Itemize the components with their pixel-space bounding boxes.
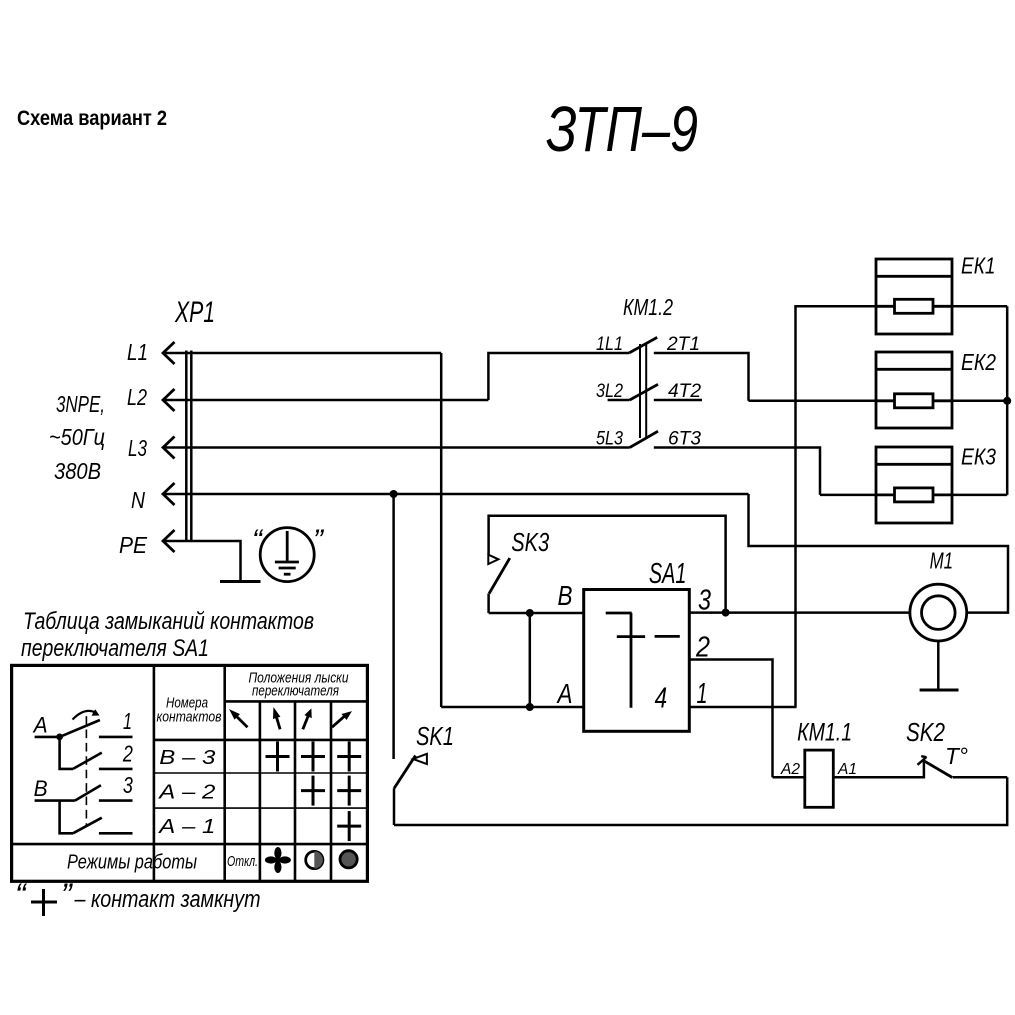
wire SK1 top (from N) [392, 494, 395, 759]
wire coil right to SK2 [833, 761, 924, 778]
switch SK1 fixed contact [413, 754, 427, 764]
SA1 pin 4 label [655, 683, 668, 715]
motor M1 [910, 584, 967, 641]
svg-text:контактов: контактов [157, 710, 222, 726]
SA1 pin B label [558, 580, 573, 611]
svg-text:PE: PE [119, 532, 148, 558]
svg-text:SK3: SK3 [511, 527, 549, 557]
switch SK2 contact tick [918, 756, 927, 765]
svg-text:А – 2: А – 2 [158, 782, 215, 804]
wire EK2 right lead [952, 400, 1007, 403]
svg-text:SA1: SA1 [649, 558, 687, 590]
wire SK3 bottom [487, 594, 490, 614]
switch diagram fixed 4 [99, 832, 133, 835]
switch diagram blade 2 [73, 753, 102, 769]
switch diagram blade 4 [73, 818, 102, 834]
switch SK2 thermal label [945, 743, 968, 769]
page title [17, 107, 167, 130]
wire N arrow [163, 483, 175, 505]
legend text [74, 886, 261, 913]
wire EK1 right lead [952, 305, 1007, 308]
svg-text:L2: L2 [127, 384, 147, 410]
mode off label [227, 853, 258, 870]
node A bridge [526, 703, 534, 711]
svg-text:~50Гц: ~50Гц [49, 424, 105, 450]
switch diagram B wire [35, 799, 75, 802]
svg-text:L1: L1 [127, 339, 148, 365]
net descriptor 380V [54, 458, 101, 484]
svg-text:ЕК2: ЕК2 [961, 349, 996, 375]
svg-text:1L1: 1L1 [596, 334, 623, 355]
switch diagram fixed 3 [99, 799, 133, 802]
wire SA1 pin A row [441, 706, 584, 709]
KM1.2 contact blade 3 [630, 431, 658, 447]
svg-text:XP1: XP1 [174, 296, 215, 329]
switch diagram dashed linkage [85, 716, 87, 826]
quote marks around earth symbol [252, 524, 325, 557]
KM1.2 pin label 1L1 [596, 334, 623, 355]
SA1 key symbol [606, 613, 680, 708]
node EK bus junction [1003, 397, 1011, 405]
svg-text:2: 2 [122, 740, 133, 766]
switch diagram link A to blade2 [60, 737, 73, 769]
plus A-2 col3 [301, 776, 325, 806]
KM1.2 pin label 2T1 [666, 334, 700, 355]
KM1.2 pin label 5L3 [596, 429, 623, 450]
SA1 pin 3 label [698, 585, 711, 617]
switch diagram blade 3 [75, 785, 101, 800]
switch diagram A pivot node [56, 734, 63, 741]
svg-text:– контакт замкнут: – контакт замкнут [74, 886, 261, 913]
svg-text:1: 1 [123, 708, 132, 734]
switch diagram fixed 2 [99, 768, 133, 771]
svg-text:ЕК1: ЕК1 [961, 253, 996, 279]
wire B-A bridge [529, 613, 532, 707]
contactor coil KM1.1 label [797, 718, 852, 746]
net descriptor 3NPE [56, 391, 105, 417]
svg-text:”: ” [61, 877, 73, 913]
KM1.2 pin label 6T3 [668, 429, 701, 450]
switch SK1 blade [394, 756, 415, 789]
switch SK3 blade [489, 558, 510, 593]
svg-text:ЕК3: ЕК3 [961, 444, 996, 470]
wire EK3 left lead [820, 494, 876, 497]
node L2 label [127, 384, 147, 410]
wire N row [163, 493, 749, 496]
switch diagram label 3 [123, 772, 133, 798]
switch SA1 box [584, 590, 690, 732]
switch diagram label A [32, 713, 48, 738]
wire EK1 left lead drop to SA1 pin1 [796, 306, 877, 707]
wire PE row [163, 541, 241, 582]
plus A-1 col4 [337, 811, 361, 841]
wire EK3 right lead [952, 494, 1007, 497]
wire SA1 pin B row [489, 612, 584, 615]
svg-text:КМ1.2: КМ1.2 [623, 294, 673, 320]
table title line 2 [21, 635, 209, 662]
svg-text:380В: 380В [54, 458, 101, 484]
svg-text:А – 1: А – 1 [158, 816, 215, 838]
wire L1 drop to SA1 A [440, 353, 443, 707]
legend plus [31, 889, 57, 916]
svg-text:ЗТП–9: ЗТП–9 [546, 93, 698, 165]
switch diagram rotation arc [73, 711, 97, 720]
wire coil left [773, 776, 805, 779]
svg-text:Режимы работы: Режимы работы [67, 852, 197, 874]
table header polozheniya [249, 671, 349, 687]
KM1.2 contact 3 right wire 6T3 [654, 448, 820, 495]
SA1 pin 1 label [697, 678, 708, 710]
connector XP1 label [174, 296, 215, 329]
position arrow 2 [274, 709, 281, 730]
coil KM1.1 pin A2 label [780, 761, 800, 778]
svg-text:КМ1.1: КМ1.1 [797, 718, 852, 746]
plus B-3 col4 [337, 742, 361, 772]
KM1.2 contact 2 left stub 3L2 [608, 399, 630, 402]
svg-text:Таблица замыканий контактов: Таблица замыканий контактов [23, 608, 314, 635]
switch diagram label B [34, 776, 48, 801]
switch SK1 label [416, 721, 454, 751]
node B bridge [526, 609, 534, 617]
wire SK1 bottom [393, 788, 396, 825]
plus B-3 col3 [301, 742, 325, 772]
wire L2 jog up to 1L1 [488, 353, 629, 400]
heater EK3 box [876, 447, 952, 523]
mode half icon [306, 851, 323, 868]
connector XP1 bars [186, 351, 191, 543]
svg-text:В: В [558, 580, 573, 611]
switch SK3 fixed contact [488, 555, 498, 564]
SA1 pin A label [556, 678, 573, 709]
svg-text:L3: L3 [128, 435, 147, 461]
ground PE bar [220, 580, 261, 583]
ground earth symbol in quotes [260, 528, 314, 582]
svg-text:3NPE,: 3NPE, [56, 391, 105, 417]
switch diagram link B to blade4 [60, 801, 73, 834]
KM1.2 contact 1 right wire 2T1 [654, 353, 749, 401]
wire L2 row [163, 399, 488, 402]
heater EK1 label [961, 253, 996, 279]
motor M1 ground bar [920, 689, 959, 692]
KM1.2 linkage bars [640, 344, 646, 438]
legend quote close [61, 877, 73, 913]
switch diagram label 2 [122, 740, 133, 766]
svg-text:А: А [32, 713, 48, 738]
drawing title ЗТП-9 [546, 93, 698, 165]
heater EK1 box [876, 259, 952, 334]
wire bottom return [394, 777, 1007, 825]
switch SA1 label [649, 558, 687, 590]
wire PE arrow [163, 530, 175, 552]
node N label [131, 487, 145, 513]
row label A-2 [158, 782, 215, 804]
mode full icon [340, 851, 357, 868]
table inner grid [154, 665, 368, 881]
legend quote open [15, 877, 28, 913]
KM1.2 pin label 4T2 [668, 381, 701, 402]
KM1.2 contact blade 2 [630, 384, 658, 400]
heater EK3 label [961, 444, 996, 470]
svg-text:Схема вариант 2: Схема вариант 2 [17, 107, 167, 130]
wire EK right bus [1006, 306, 1009, 495]
svg-text:В – 3: В – 3 [159, 747, 215, 769]
KM1.2 pin label 3L2 [596, 381, 623, 402]
position arrow 1 [230, 710, 247, 727]
svg-text:N: N [131, 487, 145, 513]
wire SK2 right [953, 776, 1008, 779]
plus A-2 col4 [337, 776, 361, 806]
table title line 1 [23, 608, 314, 635]
switch diagram blade 1 [60, 720, 100, 737]
svg-text:5L3: 5L3 [596, 429, 623, 450]
wire L3 row to 5L3 [163, 446, 630, 449]
svg-text:А: А [556, 678, 573, 709]
svg-text:переключателя SA1: переключателя SA1 [21, 635, 209, 662]
KM1.2 contact blade 1 [629, 337, 657, 353]
switch diagram A wire [35, 736, 60, 739]
svg-text:В: В [34, 776, 48, 801]
table frame [12, 665, 368, 881]
svg-text:А1: А1 [837, 761, 857, 778]
wire SK3 top bridge [489, 516, 726, 613]
switch SK2 blade [924, 761, 952, 778]
wire L1 row [163, 352, 441, 355]
svg-text:4: 4 [655, 683, 668, 715]
heater EK2 box [876, 352, 952, 428]
svg-text:М1: М1 [930, 548, 954, 574]
svg-text:Откл.: Откл. [227, 853, 258, 870]
mode fan icon [265, 847, 291, 873]
switch diagram label 1 [123, 708, 132, 734]
node PE label [119, 532, 148, 558]
row label A-1 [158, 816, 215, 838]
wire L3 arrow [163, 437, 175, 459]
svg-text:SK2: SK2 [906, 717, 945, 747]
wire SA1 pin 1 to EK1 drop [689, 706, 796, 709]
wire SA1 pin 3 to M1 [689, 611, 910, 614]
wire SA1 pin 2 to coil [689, 660, 772, 778]
motor M1 label [930, 548, 954, 574]
wire N to motor [749, 494, 1009, 613]
svg-text:3: 3 [123, 772, 133, 798]
coil KM1.1 pin A1 label [837, 761, 857, 778]
svg-text:А2: А2 [780, 761, 800, 778]
svg-text:Т°: Т° [945, 743, 968, 769]
position arrow 3 [303, 710, 311, 730]
wire EK2 left lead [749, 400, 877, 403]
switch SK3 label [511, 527, 549, 557]
svg-text:SK1: SK1 [416, 721, 454, 751]
plus B-3 col2 [266, 742, 290, 772]
motor M1 ground stem [937, 641, 940, 690]
contactor KM1.2 label [623, 294, 673, 320]
node N junction to SK1 [390, 490, 398, 498]
table header nomera [166, 696, 208, 712]
wire L1 arrow [163, 342, 175, 364]
switch SK2 label [906, 717, 945, 747]
net descriptor 50Hz [49, 424, 105, 450]
svg-text:1: 1 [697, 678, 708, 710]
KM1.2 contact 2 right stub 4T2 [654, 399, 702, 402]
coil KM1.1 box [805, 750, 834, 807]
node SK3 bridge on pin3 [722, 609, 730, 617]
node L3 label [128, 435, 147, 461]
heater EK2 label [961, 349, 996, 375]
node L1 label [127, 339, 148, 365]
mode row label [67, 852, 197, 874]
SA1 pin 2 label [695, 632, 710, 664]
row label B-3 [159, 747, 215, 769]
wire L2 arrow [163, 389, 175, 411]
switch diagram fixed 1 [99, 736, 133, 739]
position arrow 4 [332, 712, 351, 727]
svg-text:переключателя: переключателя [252, 684, 339, 700]
